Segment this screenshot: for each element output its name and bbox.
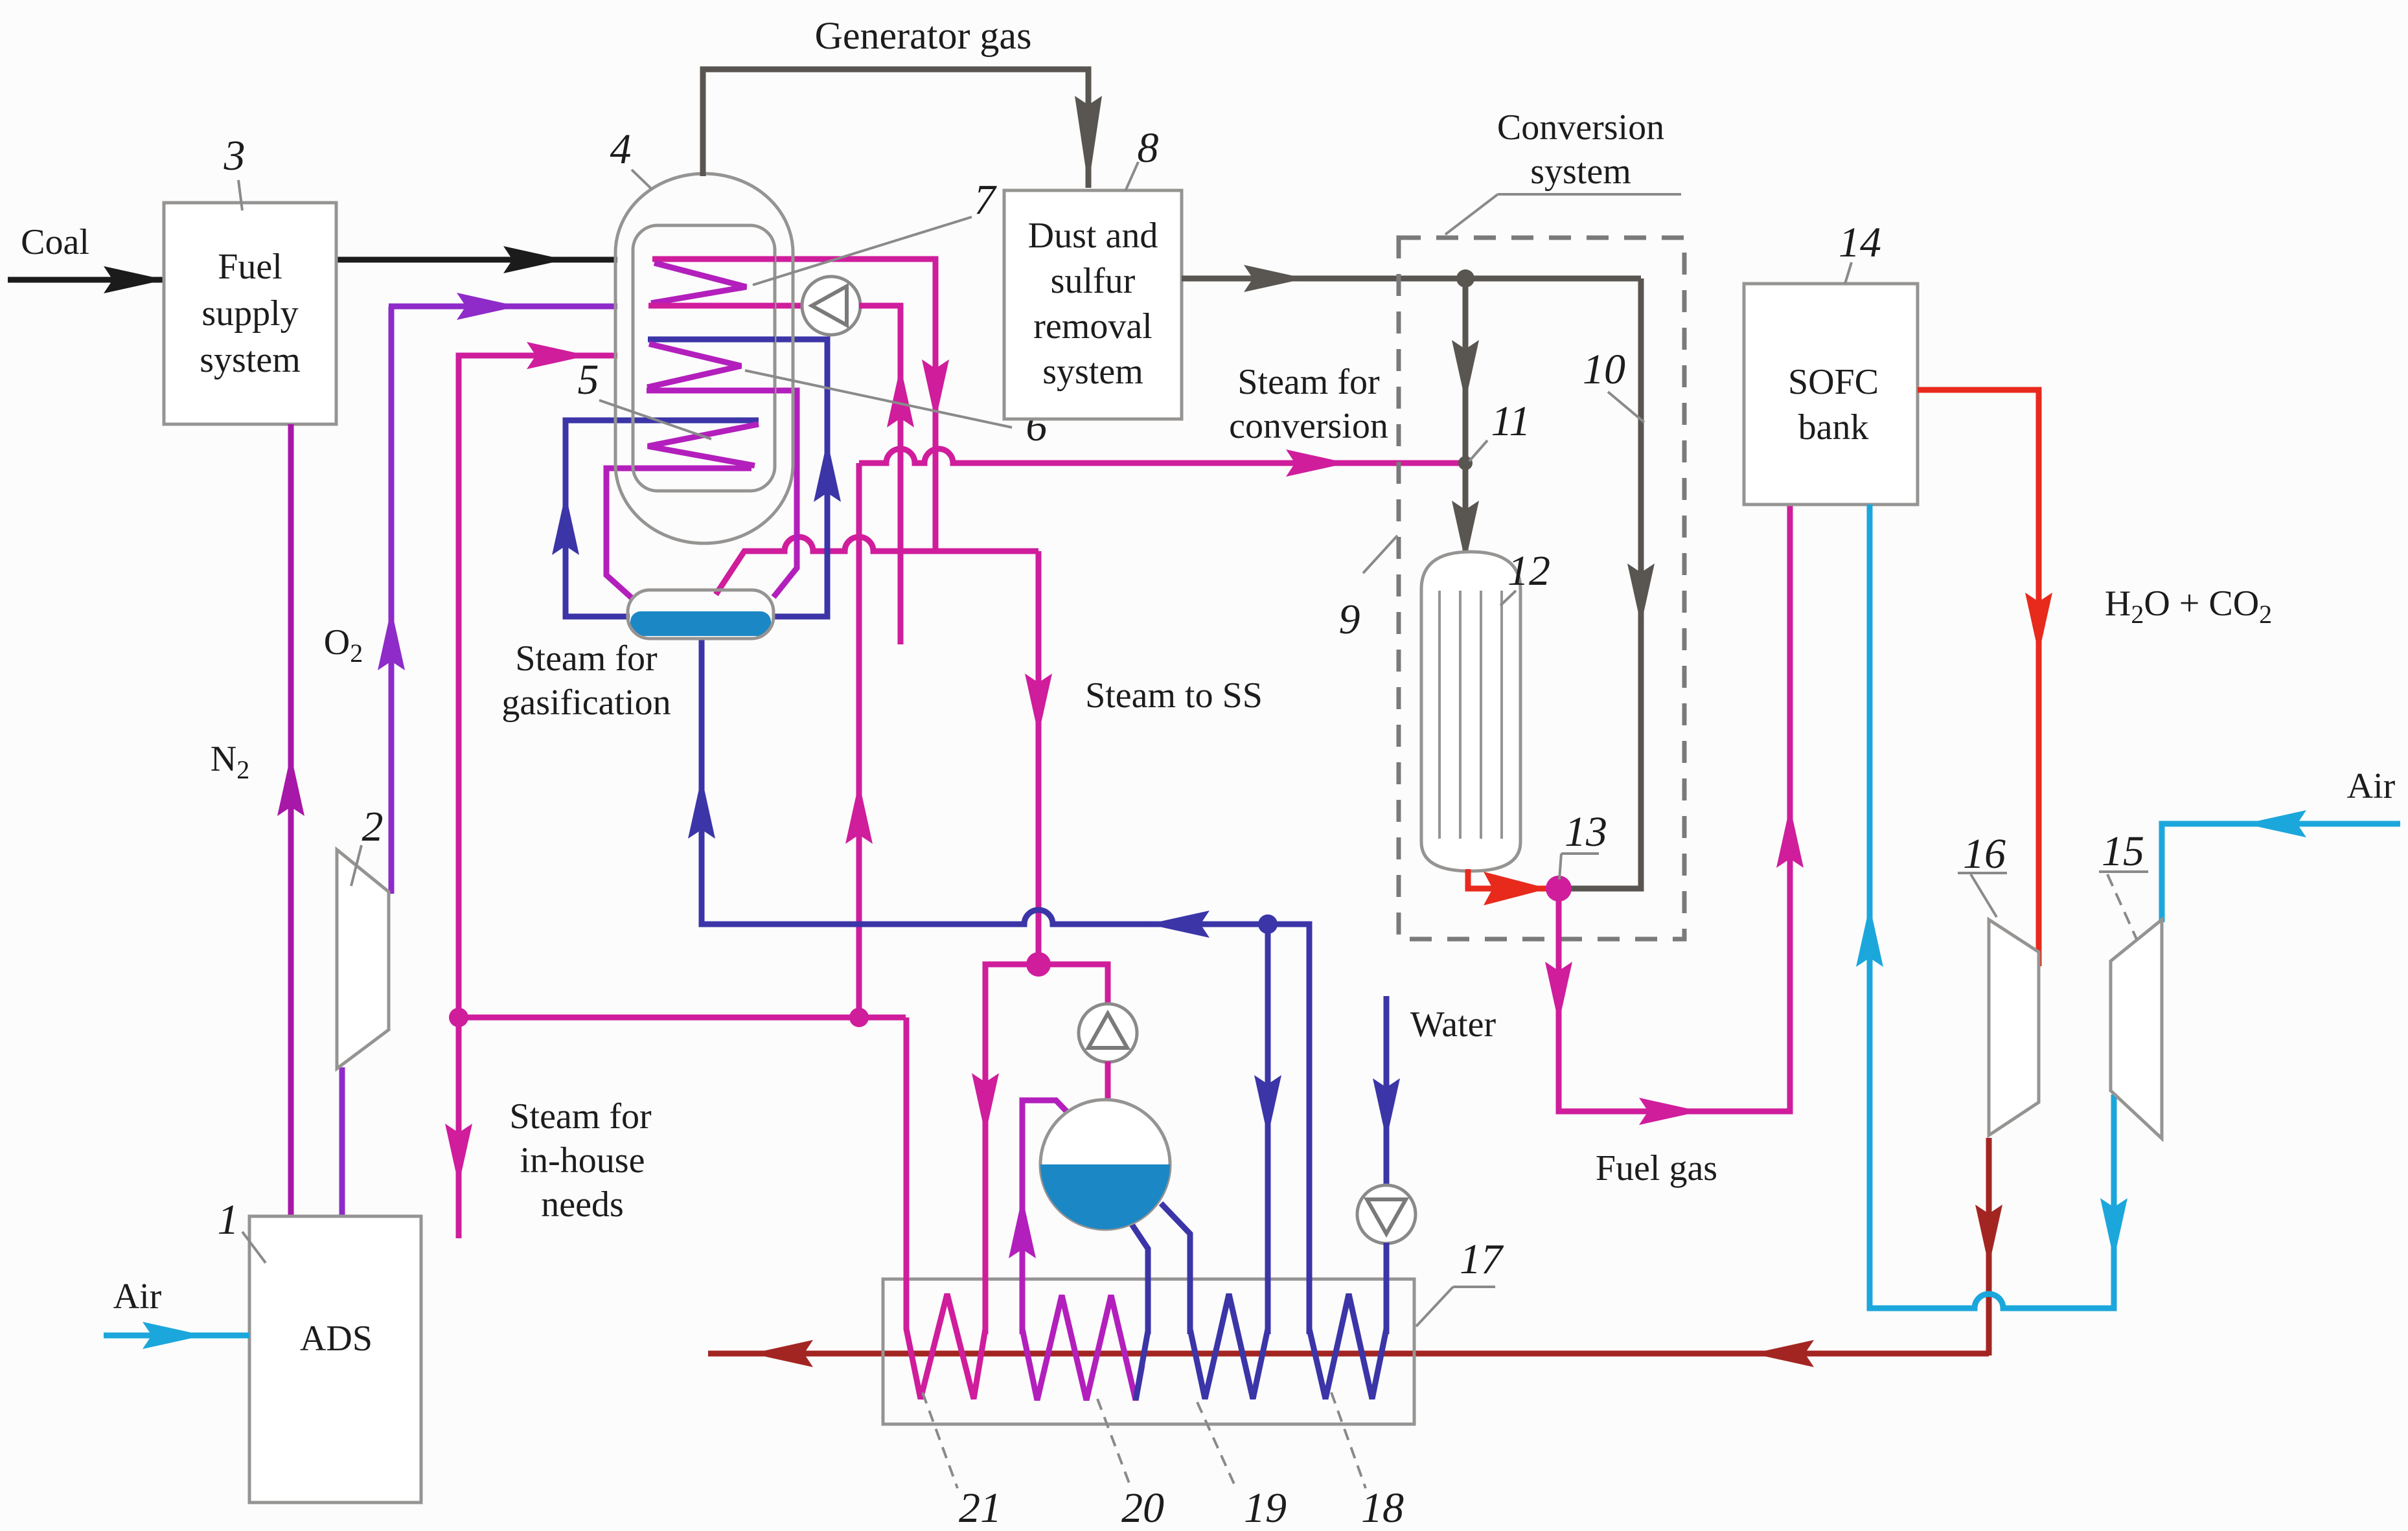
converter vessel 12 [1421,552,1520,871]
wire coal inlet [8,277,165,283]
conversion system dashed box 9 [1399,238,1684,939]
coil 21 [906,964,985,1399]
coil 6 evaporator top [648,337,775,343]
wire air inlet to compressor 15 [2162,824,2400,922]
node 13 junction [1546,876,1572,902]
svg-text:5: 5 [578,356,599,403]
wire SOFC exhaust H2O CO2 [1918,390,2039,966]
svg-text:Generator gas: Generator gas [815,14,1032,57]
svg-text:Steam to SS: Steam to SS [1085,675,1263,716]
svg-text:8: 8 [1138,124,1159,172]
pump P3 water feed [1357,1185,1416,1243]
wire steam to SS vertical [1036,551,1042,964]
wire air inlet to ADS [104,1333,249,1339]
svg-text:conversion: conversion [1229,406,1388,446]
wire steam for in-house needs [456,1017,462,1238]
wire gas bypass line 10 [1568,278,1641,889]
steam drum [1040,1100,1170,1229]
svg-text:Steam for: Steam for [509,1096,652,1137]
dust and sulfur removal box 8 [1004,190,1182,419]
slag pot water fill [630,611,771,636]
svg-text:7: 7 [974,176,998,223]
pump P1 gasifier circulation [802,277,860,335]
svg-text:gasification: gasification [501,683,671,723]
wire drum downcomer to coil 19 [1161,1203,1190,1334]
SOFC bank box 14 [1744,284,1918,505]
coil 5 zigzag [648,424,759,466]
svg-text:H2O + CO2: H2O + CO2 [2105,584,2272,629]
svg-text:Steam for: Steam for [515,639,658,679]
svg-text:Fuel gas: Fuel gas [1596,1148,1717,1188]
coil 7 superheater [652,256,775,262]
coil 7 bottom line [648,303,775,309]
gasifier vessel 4 outer shell [615,174,793,543]
svg-text:21: 21 [959,1484,1002,1531]
gasifier vessel 4 inner wall [633,225,775,491]
svg-text:Coal: Coal [21,222,89,262]
svg-text:Fuel: Fuel [218,247,282,287]
svg-text:19: 19 [1244,1484,1287,1531]
svg-text:Water: Water [1410,1004,1496,1045]
coil 18 [1309,924,1386,1399]
svg-text:Air: Air [2347,766,2396,806]
wire coil7 bottom to circulation pump [775,303,803,309]
wire converter outlet red [1468,869,1548,889]
coil 20 [1022,1100,1142,1400]
wire O2 compressor 2 to gasifier [389,306,395,894]
wire slag pot to steam line [716,537,935,595]
svg-text:supply: supply [201,293,298,334]
wire SOFC cathode air loop [1870,505,2114,1308]
slag pot outline [628,590,774,639]
wire coil5 bottom to slag pot [606,468,751,598]
wire slag pot water return [702,637,1309,1334]
svg-text:16: 16 [1963,830,2006,878]
wire steam for gasification [459,356,617,1017]
wire steam for conversion [859,449,1465,463]
wire coil 20 riser to drum [1022,1100,1073,1334]
wire pump P1 return [859,306,900,644]
svg-text:Steam for: Steam for [1237,362,1380,402]
wire gas branch 11 down to converter [1463,278,1469,570]
svg-text:14: 14 [1839,219,1881,266]
svg-text:12: 12 [1508,547,1550,595]
svg-text:ADS: ADS [300,1319,373,1359]
compressor 2 [337,850,389,1069]
svg-text:3: 3 [224,132,246,179]
coil 5 economizer top [647,418,759,424]
wire feed to coil 19 [1265,924,1271,1334]
wire coil5 water loop [566,420,759,617]
wire clean gas to conversion [1182,276,1641,282]
svg-text:removal: removal [1033,306,1152,346]
svg-text:system: system [1530,152,1631,192]
wire O2 ADS to compressor 2 [339,1067,345,1216]
wire steam riser to conversion line [856,463,862,1017]
pump P2 above drum [1079,1004,1137,1062]
wire fuel gas to SOFC [1559,505,1790,1111]
svg-text:needs: needs [541,1185,624,1225]
svg-text:bank: bank [1798,407,1869,448]
ADS box 1 [249,1216,421,1503]
svg-text:9: 9 [1339,596,1360,643]
svg-text:Conversion: Conversion [1497,108,1664,148]
wire coil6 water riser [648,339,827,617]
wire N2 from fuel system to ADS [288,424,294,1216]
svg-text:17: 17 [1460,1236,1504,1283]
wire drum downcomer to coil 20 [1130,1221,1148,1334]
svg-text:system: system [1042,352,1143,392]
wire generator gas [703,69,1088,188]
wire SS junction to coil 21 feed [985,964,1038,1334]
turbine 16 [1989,920,2039,1135]
wire coil6 bottom to slag pot [774,391,797,597]
svg-text:in-house: in-house [520,1140,645,1181]
svg-text:2: 2 [362,803,384,850]
wire pump P3 to coil 18 [1384,1243,1390,1334]
svg-text:13: 13 [1565,808,1607,856]
wire pump to drum [1105,1061,1111,1101]
svg-text:20: 20 [1121,1484,1164,1531]
svg-text:sulfur: sulfur [1051,261,1136,301]
svg-text:15: 15 [2102,828,2144,875]
coil 19 [1190,924,1268,1399]
wire coal fuel-supply to gasifier [336,257,617,263]
compressor 15 [2111,920,2162,1139]
svg-text:4: 4 [610,126,632,173]
wire dark-red exhaust from turbine 16 to heat exchanger 17 [708,1351,1989,1357]
svg-text:10: 10 [1583,346,1625,393]
coil 6 zigzag [647,344,741,387]
wire water inlet [1384,996,1390,1186]
svg-text:system: system [200,340,301,380]
svg-text:11: 11 [1491,398,1530,445]
svg-text:SOFC: SOFC [1788,362,1879,402]
svg-text:Air: Air [113,1276,162,1317]
wire SS junction to drum pump [1038,964,1108,1004]
fuel supply system box 3 [164,203,336,424]
heat exchanger box 17 [883,1279,1414,1424]
wire coil7 outlet to steam-to-SS [775,259,1038,551]
svg-text:1: 1 [218,1196,239,1243]
svg-text:18: 18 [1361,1484,1404,1531]
wire steam header horizontal [459,1015,906,1021]
svg-text:Dust and: Dust and [1028,216,1158,256]
